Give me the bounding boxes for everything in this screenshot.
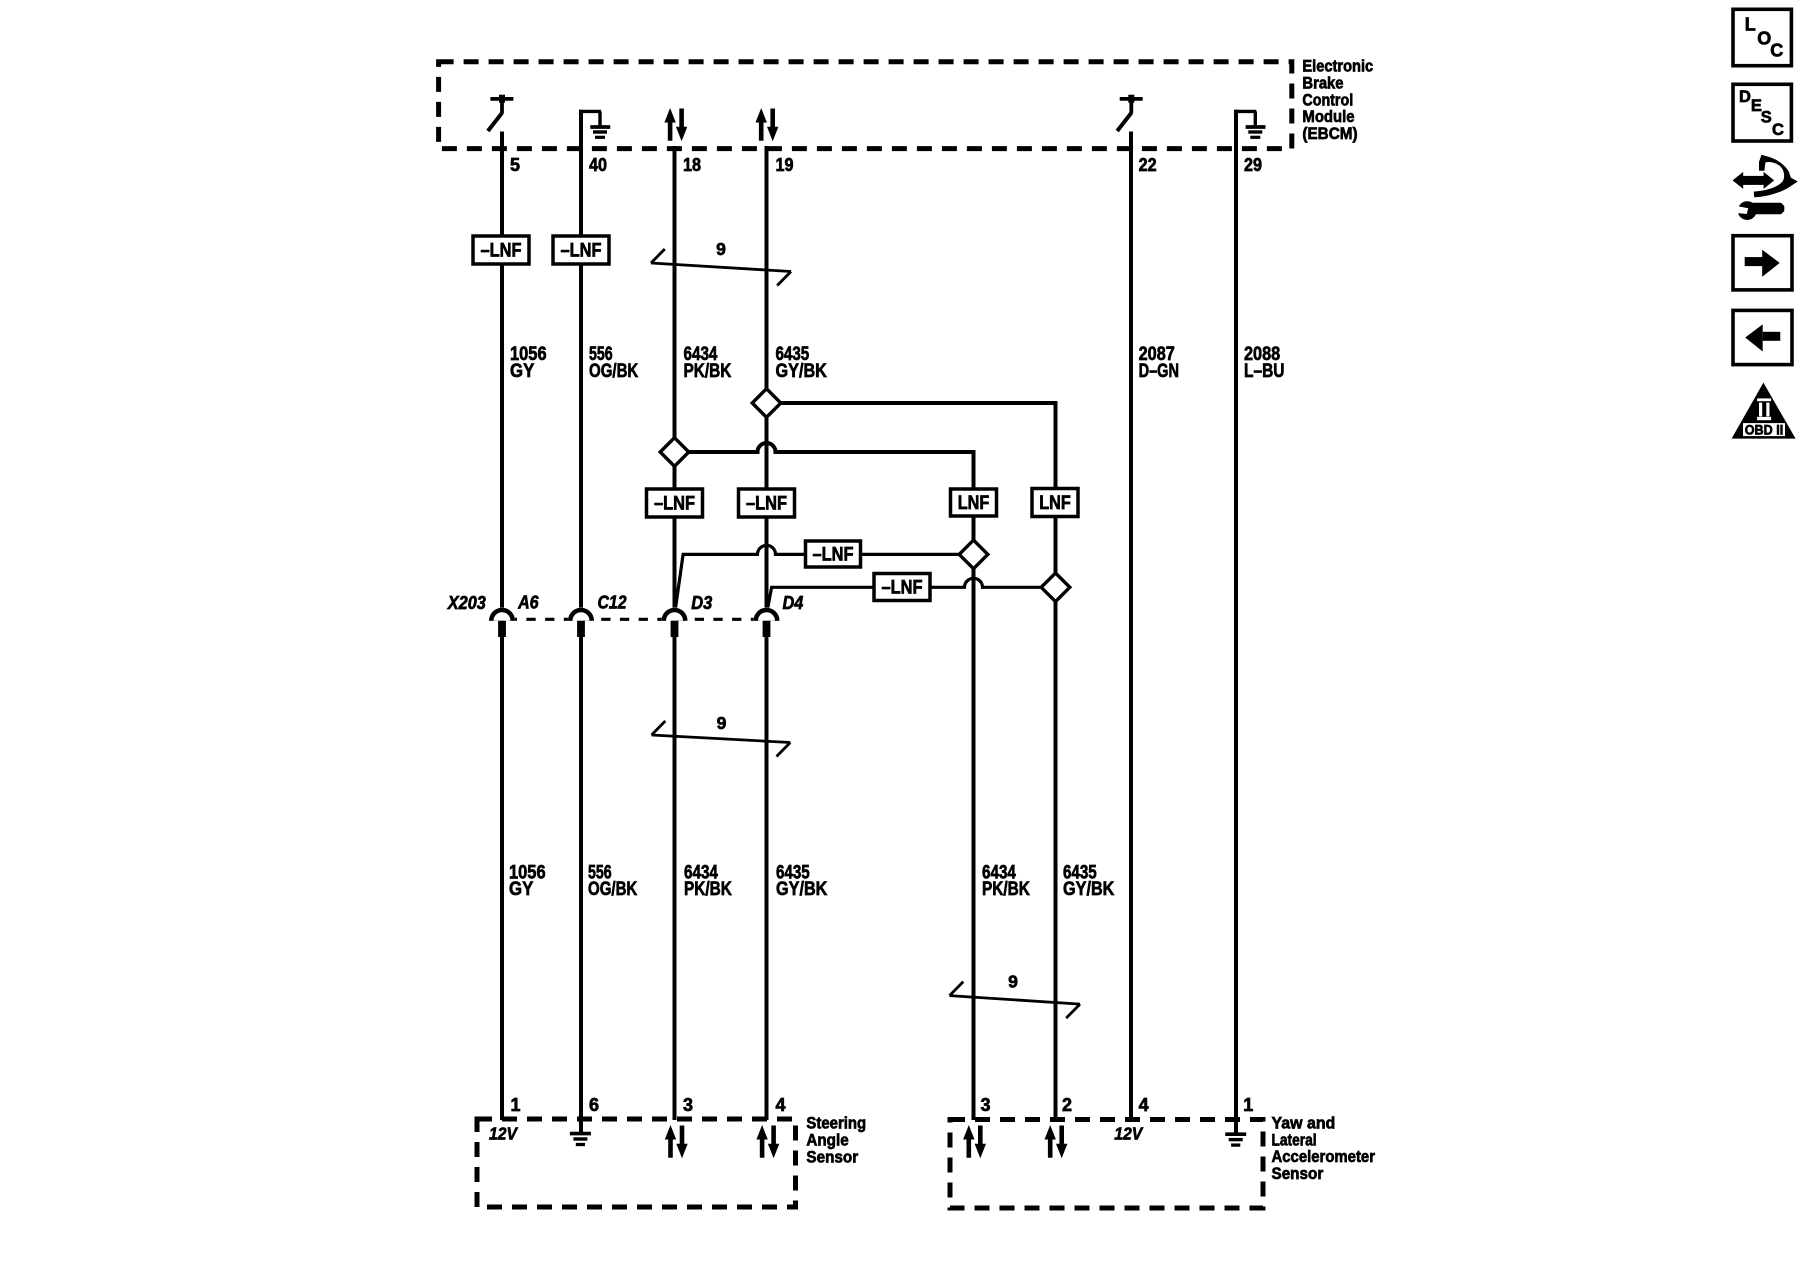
- svg-text:PK/BK: PK/BK: [684, 878, 732, 900]
- svg-text:–LNF: –LNF: [882, 578, 923, 599]
- svg-text:18: 18: [683, 155, 701, 175]
- svg-text:GY: GY: [510, 360, 534, 382]
- svg-text:–LNF: –LNF: [654, 494, 695, 515]
- svg-text:1: 1: [1243, 1095, 1253, 1115]
- svg-text:C: C: [1772, 121, 1784, 139]
- svg-text:12V: 12V: [1114, 1123, 1144, 1143]
- svg-text:4: 4: [776, 1095, 786, 1115]
- svg-text:GY/BK: GY/BK: [776, 878, 827, 900]
- svg-text:D4: D4: [783, 593, 804, 613]
- svg-text:3: 3: [683, 1095, 693, 1115]
- svg-text:C12: C12: [598, 593, 627, 613]
- svg-text:D3: D3: [691, 593, 712, 613]
- svg-text:PK/BK: PK/BK: [684, 360, 732, 382]
- svg-text:Sensor: Sensor: [806, 1147, 858, 1166]
- svg-text:OG/BK: OG/BK: [589, 360, 638, 382]
- svg-text:9: 9: [717, 713, 727, 733]
- svg-text:GY/BK: GY/BK: [776, 360, 827, 382]
- svg-text:12V: 12V: [489, 1123, 519, 1143]
- svg-text:X203: X203: [447, 593, 486, 613]
- svg-text:2: 2: [1062, 1095, 1072, 1115]
- svg-text:C: C: [1770, 40, 1783, 60]
- svg-text:GY: GY: [509, 878, 533, 900]
- svg-text:L–BU: L–BU: [1244, 360, 1285, 382]
- svg-text:GY/BK: GY/BK: [1063, 878, 1114, 900]
- svg-text:29: 29: [1244, 155, 1262, 175]
- svg-text:–LNF: –LNF: [813, 545, 854, 566]
- svg-text:D–GN: D–GN: [1139, 360, 1179, 382]
- svg-text:LNF: LNF: [958, 493, 990, 514]
- svg-text:9: 9: [716, 239, 726, 259]
- svg-text:–LNF: –LNF: [746, 494, 787, 515]
- svg-text:–LNF: –LNF: [481, 241, 522, 262]
- svg-text:9: 9: [1008, 972, 1018, 992]
- svg-text:Sensor: Sensor: [1272, 1164, 1324, 1183]
- svg-text:6: 6: [589, 1095, 599, 1115]
- svg-text:22: 22: [1139, 155, 1157, 175]
- svg-text:(EBCM): (EBCM): [1302, 124, 1357, 143]
- svg-text:5: 5: [510, 155, 520, 175]
- svg-text:3: 3: [981, 1095, 991, 1115]
- svg-text:1: 1: [511, 1095, 521, 1115]
- svg-text:A6: A6: [517, 593, 539, 613]
- svg-text:L: L: [1745, 15, 1756, 35]
- svg-text:PK/BK: PK/BK: [982, 878, 1030, 900]
- svg-text:4: 4: [1139, 1095, 1149, 1115]
- svg-text:OG/BK: OG/BK: [588, 878, 637, 900]
- svg-text:40: 40: [589, 155, 607, 175]
- svg-text:–LNF: –LNF: [561, 241, 602, 262]
- svg-text:D: D: [1739, 88, 1751, 106]
- svg-text:S: S: [1761, 109, 1772, 127]
- svg-text:LNF: LNF: [1039, 493, 1071, 514]
- svg-text:19: 19: [776, 155, 794, 175]
- svg-text:OBD II: OBD II: [1745, 423, 1784, 438]
